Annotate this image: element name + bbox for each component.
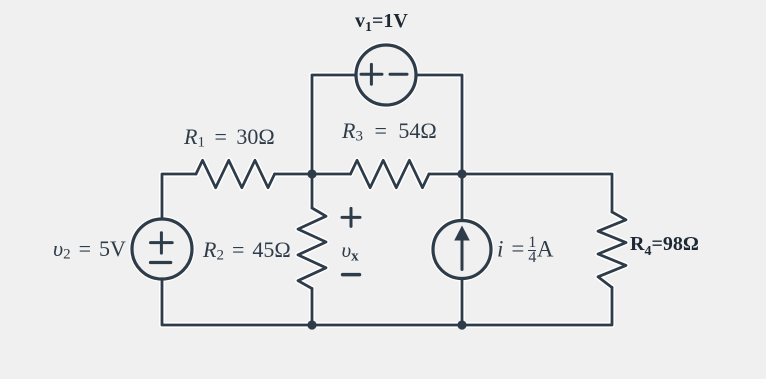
current source I1: [433, 221, 491, 279]
arrow of current source I1: [454, 226, 470, 270]
resistor R2: [298, 208, 326, 289]
resistor R4: [598, 212, 626, 288]
wire bottom rail with v2 branch and R4 branch: [162, 279, 612, 325]
wire current source to bottom rail: [461, 279, 464, 326]
minus sign of V2: [151, 261, 171, 264]
voltage source V2: [132, 219, 192, 279]
wire top-left rail: v2 branch up to R1 lead: [162, 174, 196, 220]
wire v1 loop left side: [312, 75, 356, 175]
wire R2 to bottom rail: [311, 289, 314, 326]
label i = 1/4 A: [497, 237, 554, 265]
label R3 = 54 ohm: [342, 120, 437, 145]
node A junction dot: [307, 169, 316, 178]
plus sign of V2: [151, 233, 173, 253]
resistor R1: [196, 160, 275, 187]
label R2 = 45 ohm: [203, 239, 291, 264]
label v1=1V: [355, 11, 408, 35]
plus sign of vx polarity: [342, 208, 360, 226]
wire node B to current source: [461, 174, 464, 221]
resistor R3: [351, 160, 430, 187]
wire R3 to node B to R4 top corner: [429, 174, 612, 212]
minus sign of V1: [390, 73, 407, 76]
minus sign of vx polarity: [343, 273, 360, 277]
wire R1 to R3 through node A: [275, 173, 351, 176]
bottom node under R2 junction dot: [307, 320, 316, 329]
label R4 = 98 ohm: [630, 234, 699, 259]
label vx: [342, 240, 359, 265]
label v2 = 5V: [53, 238, 126, 263]
label R1 = 30 ohm: [184, 126, 275, 151]
wire v1 loop right side: [416, 75, 462, 173]
voltage source V1: [356, 45, 416, 105]
wire node A to R2: [311, 174, 314, 208]
plus sign of V1: [361, 64, 382, 84]
bottom node under current source junction dot: [457, 320, 466, 329]
node B junction dot: [457, 169, 466, 178]
